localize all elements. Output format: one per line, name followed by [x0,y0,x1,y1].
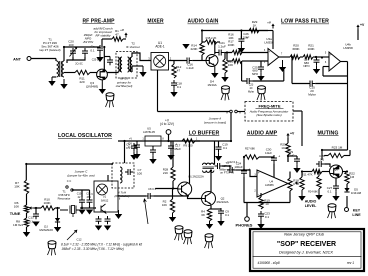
jumper C terminals [66,186,68,188]
wire LO left rail [25,164,27,180]
svg-text:LOCAL OSCILLATOR: LOCAL OSCILLATOR [58,133,112,139]
junction dot 10 [287,155,289,157]
svg-text:JW PIN: JW PIN [83,40,94,44]
resistor R10 [41,206,55,210]
TO-92 package drawing for Q4 [222,86,230,89]
wire R7 to pot [26,194,28,205]
ground below C6 [136,150,138,154]
wire T1 secondary top to node [63,47,65,61]
svg-text:10: 10 [281,146,285,150]
ground below C9b [133,151,135,155]
svg-text:IF xformer: IF xformer [126,45,140,49]
ground below C10 [78,210,85,215]
resistor R17 [232,59,242,63]
wire U4 out [288,183,290,185]
wire into T1 primary [55,59,57,62]
ground below C17 [170,151,172,155]
svg-text:R23 1M: R23 1M [332,146,343,150]
svg-text:21K: 21K [163,171,168,175]
wire C16 to Q4 base [192,60,206,62]
wire LO to jumper A [158,111,230,113]
wire R23 vert link [349,150,351,156]
ground below C27 [335,191,337,196]
wire Q2 emitter down [210,206,212,210]
wire C13b to audio amp [223,166,230,170]
capacitor C7 [125,171,128,173]
wire R28 top [172,141,174,167]
wire R4 to C9 [210,208,222,210]
resistor R22 [345,172,349,185]
wire Q4 collector up [214,42,216,54]
junction dot 23 [63,46,65,48]
capacitor C8 [145,195,148,197]
wire mixer LO port down [157,70,159,112]
wire feedback bottom [323,75,348,77]
wire R16 to opamp noninv [242,52,268,54]
dashed outline around T2 [116,52,137,79]
svg-text:Resonator: Resonator [58,197,71,201]
wire C27 top [335,178,337,186]
wire feedback loop left [242,80,247,82]
wire Q6 out [343,171,348,173]
wire jumper A down to rail [230,113,232,141]
wire V to opamp region [287,156,289,162]
capacitor C30 [273,155,275,158]
svg-text:10: 10 [265,202,269,206]
wire R16 left lead [227,52,232,54]
TO-92 package drawing bottom middle [205,234,213,237]
wire Q2 collector up [210,171,212,192]
wire T2 secondary to mixer [132,53,151,61]
svg-text:SA612: SA612 [101,199,109,202]
capacitor C27 [335,183,337,186]
svg-text:Q1 2N2222A: Q1 2N2222A [188,175,204,179]
svg-text:LM78L05: LM78L05 [143,130,155,134]
op-amp U3a [268,49,279,66]
transformer T4 [203,163,214,165]
wire Q6 source drop [318,172,320,177]
junction dot 21 [321,56,323,58]
capacitor C29 [296,156,298,159]
varactor diode D1 [55,218,60,222]
capacitor C23 feedback [244,80,247,82]
underline of FREQ-MITE [256,108,284,110]
resistor R13 [223,59,227,73]
svg-text:100: 100 [137,171,142,175]
svg-text:0.1: 0.1 [126,146,130,150]
wire T5 to rail [124,141,126,163]
wire pot top [301,172,303,178]
junction dot 13 [35,207,37,209]
svg-text:1: 1 [142,138,144,141]
ground below TUNE pot [23,232,30,237]
diode D5 [344,188,349,192]
svg-text:RF PRE-AMP: RF PRE-AMP [82,18,115,24]
wire R23 right lead [344,155,350,157]
wire wiper line [34,207,42,209]
svg-text:New Jersey QRP Club: New Jersey QRP Club [284,232,325,237]
resistor R21 [303,55,313,59]
capacitor C15 [307,83,310,85]
wire R20 R21 link [300,56,303,58]
capacitor C17 [170,143,172,146]
wire R17 node down [241,61,243,81]
svg-text:1N34A: 1N34A [207,83,217,87]
jumper A terminals [230,110,233,113]
svg-text:6: 6 [91,193,93,196]
wire wiper to osc line [35,208,37,214]
svg-text:.081: .081 [86,196,91,199]
svg-text:LINE: LINE [352,213,361,217]
svg-text:MIXER: MIXER [147,18,164,24]
svg-text:1M 9v4: 1M 9v4 [13,223,23,227]
junction dot 19 [315,56,317,58]
wire muting entry [322,149,348,151]
svg-text:8: 8 [162,138,164,141]
svg-text:-: - [269,61,270,65]
svg-text:tap 2T (twisted): tap 2T (twisted) [40,48,61,52]
wire U2 top to T5 [107,175,109,181]
wire C26 top [240,31,242,39]
capacitor C19 [218,144,220,147]
wire R8 bottom [26,227,28,232]
dashed box around T5 [112,163,134,188]
svg-text:R9 100: R9 100 [183,144,193,148]
resistor R2 [170,199,174,213]
svg-text:MUTING: MUTING [317,130,338,136]
wire R22 to D5 [346,184,348,188]
wire C22 to node [235,169,244,171]
wire audio line into Q6 [302,171,312,173]
svg-text:+: + [175,143,177,147]
wire C30 top lead [273,157,275,158]
wire Q3 to T2 [107,71,118,74]
TO-92 package drawing near T5 [175,226,183,229]
svg-text:A: A [226,110,228,114]
svg-text:100uF: 100uF [234,165,243,169]
svg-text:C C: C C [67,179,72,183]
svg-text:+V: +V [120,28,124,32]
ground below U2 box [118,210,120,214]
TO-92 package drawing muting [328,204,336,207]
wire C30 into opamp [273,163,275,177]
resistor R24 [317,176,321,189]
svg-text:7: 7 [281,53,283,56]
svg-text:R11 47K: R11 47K [301,173,312,177]
wire R27 to C30 [259,156,274,158]
resistor R23 muting [328,153,344,157]
svg-text:+V: +V [129,138,132,141]
capacitor C25 preamp [109,57,111,60]
svg-text:Mylar: Mylar [308,92,315,96]
wire C25 stub [109,56,111,59]
svg-text:5: 5 [325,52,327,55]
wire collector to C21 [215,52,216,54]
ground below T1 secondary [63,79,65,84]
ground below C25 [260,72,262,76]
svg-text:10uF: 10uF [243,36,250,40]
capacitor C3 under U2 [107,216,109,219]
wire opamp pin down [260,193,262,197]
capacitor C24 [243,168,245,171]
antenna terminal J1 [27,57,31,61]
svg-text:3: 3 [148,57,150,61]
wire R18 down [289,191,291,203]
ground below C23 [260,219,262,224]
capacitor C9b [133,143,135,146]
wire rail right extension [195,140,231,142]
ground below D1 [57,222,59,227]
junction dot 22 [103,46,105,48]
wire Q1 collector up [189,141,191,184]
capacitor C5 [152,147,154,150]
wire audio gain top rail [202,30,268,32]
svg-text:1.2uF: 1.2uF [186,66,194,70]
title block inner border [253,232,361,268]
junction dot 14 [81,207,83,209]
svg-text:2C+3C: 2C+3C [75,63,83,66]
capacitor C16 [184,60,187,62]
ground below C14 [316,65,318,69]
svg-text:KEY: KEY [353,209,361,213]
oscillator U2 SA612 box [94,181,118,212]
resistor R18 [288,178,292,191]
wire feedback to output [283,70,285,81]
ground below R4 [209,221,211,224]
svg-text:2: 2 [254,190,256,193]
junction dot 20 [291,56,293,58]
svg-text:0.1: 0.1 [90,49,95,53]
+V arrow top left [125,34,127,38]
capacitor C10 [81,197,83,200]
ground below C18 [173,88,175,92]
TO-92 package drawing near opamp [258,86,266,89]
wire R15 left lead [202,41,205,43]
wire C10 up [81,190,83,197]
svg-text:AUDIO AMP: AUDIO AMP [247,130,278,136]
wire R17 right lead [242,60,250,62]
wire U3b feedback down [322,67,324,77]
capacitor C23 [260,211,262,214]
svg-text:NPO: NPO [252,72,259,76]
wire Y1 to caps [80,207,96,209]
svg-text:FREQ-MITE: FREQ-MITE [259,104,281,109]
junction dot 16 [25,163,27,165]
resistor R11 muting [312,169,322,173]
resistor R11 [75,70,90,74]
svg-text:10K: 10K [14,205,19,209]
capacitor C14 [316,57,318,60]
svg-text:100K: 100K [307,47,314,51]
ceramic resonator Y1 [60,206,80,214]
ground below C19 [218,152,220,156]
resistor R25 [286,143,290,155]
svg-text:A: A [239,110,241,114]
wire FREQ-MITE right [293,110,302,112]
oscillator transistor inside U2 [101,204,106,213]
wire C8 to Q1 [153,195,189,197]
junction dot 7 [123,140,125,142]
junction dot 1 [201,29,203,31]
wire tap to T1 [67,60,73,63]
svg-text:100K: 100K [228,43,235,47]
svg-text:+V: +V [267,21,271,25]
junction dot 8 [243,169,245,171]
resistor R28 [171,167,175,181]
wire R2 top [172,189,174,200]
+V arrow top right [357,26,359,30]
svg-text:xtal filter(sel): xtal filter(sel) [115,84,133,88]
key line terminal J3 [345,208,349,212]
potentiometer R6 TUNE [24,205,28,213]
wire FREQ-MITE output down [301,111,303,146]
transformer T2 primary [118,57,120,72]
wire R14 top [201,31,203,44]
junction dot 5 [230,140,232,142]
mixer U1 box [151,53,169,71]
wire C8 to Q1 base [155,188,178,190]
svg-text:0.1: 0.1 [320,158,324,162]
resistor R8 [24,218,28,227]
svg-text:+: + [258,171,260,175]
junction dot 4 [226,51,228,53]
dashed box FREQ-MITE [245,102,293,122]
wire C14 lead [316,56,318,58]
svg-text:LEVEL: LEVEL [305,204,317,208]
svg-text:1.2uF: 1.2uF [218,44,226,48]
wire R15 right lead [217,41,220,43]
svg-text:220: 220 [79,80,84,84]
svg-text:+V: +V [360,23,365,27]
title block divider line [253,255,362,257]
junction dot 15 [56,207,58,209]
svg-text:1: 1 [196,138,198,141]
wire node up to R27 [243,157,245,170]
wire Q3 drain up [103,47,105,70]
svg-text:680K: 680K [292,47,299,51]
ground at U3a noninv bias [282,60,284,67]
resistor R12 [172,64,176,78]
resistor R15 [205,40,217,44]
svg-text:"SOP" RECEIVER: "SOP" RECEIVER [277,241,336,248]
title block outer border [250,229,364,271]
svg-text:100: 100 [68,43,73,47]
wire C11 up [89,190,91,197]
+V arrow audio gain [272,25,274,29]
junction dot 11 [301,170,303,172]
svg-text:0.1: 0.1 [177,85,182,89]
junction dot 6 [167,140,169,142]
wire T1 primary bottom [52,76,56,78]
ground below Q4 emitter [214,66,216,73]
svg-text:+: + [278,155,280,159]
resistor R4 [207,209,211,221]
svg-text:0.1: 0.1 [265,215,270,219]
svg-text:10uF: 10uF [265,151,272,155]
ground below C9 [220,216,222,221]
capacitor C21 [216,52,219,54]
svg-text:(jumper for 40m use): (jumper for 40m use) [67,173,94,177]
wire C6 top [136,141,138,142]
pointer arrow bottom middle [144,199,148,224]
TO-92 package drawing for Q3 [106,93,114,96]
wire R18 top [289,172,291,179]
capacitor C13b [215,165,218,167]
capacitor C11 [89,197,91,200]
phones jack J2 [245,217,250,222]
wire regulator rail [118,140,200,142]
svg-text:LOW PASS FILTER: LOW PASS FILTER [281,19,329,25]
ground below R24 [318,189,320,195]
wire C25 top lead [104,56,110,58]
ground below C26 [240,44,242,48]
wire R11 to Q6 [322,171,330,173]
svg-text:AUDIO GAIN: AUDIO GAIN [188,19,219,25]
capacitor C6 [136,142,138,145]
capacitor C9 [220,208,222,211]
wire pot to R8 [26,213,28,218]
svg-text:ANT: ANT [13,57,21,61]
wire C25 top [260,61,262,66]
svg-text:0.1: 0.1 [225,213,229,217]
ground below C29 [296,164,298,168]
wire +V down [287,138,289,143]
pointer arrow to C10 [67,230,77,240]
op-amp U4 LM386 [257,170,288,197]
svg-text:RF stability: RF stability [95,34,110,38]
capacitor C13 [35,211,37,214]
svg-text:(secure in board): (secure in board) [204,121,226,125]
wire jumper A to FREQ-MITE [237,111,245,113]
svg-text:3.58 MHz: 3.58 MHz [58,193,70,197]
resistor R20 [290,55,300,59]
wire T1 secondary out [64,72,75,74]
wire osc line into U2 [95,207,96,209]
wire phones jack stem [246,203,248,217]
svg-text:MVAM109: MVAM109 [39,228,53,232]
wire C28 drop [321,150,323,160]
capacitor C25 [260,64,262,67]
capacitor Cx [99,45,101,48]
wire C24 bottom [243,176,245,202]
ground below Cx [99,53,101,57]
svg-text:Mylar: Mylar [248,91,254,94]
ground below Q3 source [101,80,103,89]
capacitor C19 [84,48,86,51]
transformer T1 [57,61,59,77]
wire D5 to key terminal [346,196,348,207]
wire C29 lead [296,156,298,159]
svg-text:10K: 10K [162,203,167,207]
wire C21 out [224,52,232,54]
ground below C5 [152,155,154,159]
wire R21 to U4b [313,56,329,58]
transformer T2 secondary [128,57,130,72]
ground left of audio gain [182,44,189,49]
svg-text:T1: T1 [62,190,66,194]
resistor R27 [244,155,259,159]
junction dot 12 [321,149,323,151]
svg-text:(2N5485): (2N5485) [86,85,98,89]
wire R25 to C29 [288,155,297,157]
JFET Q3 [97,69,108,80]
wire U3a power from rail [272,31,274,50]
regulator U6 box [145,136,161,146]
svg-text:47: 47 [115,33,119,37]
wire R11 to Q3 gate [90,72,97,74]
svg-text:rev 1: rev 1 [347,261,354,265]
wire phones line [244,202,290,204]
